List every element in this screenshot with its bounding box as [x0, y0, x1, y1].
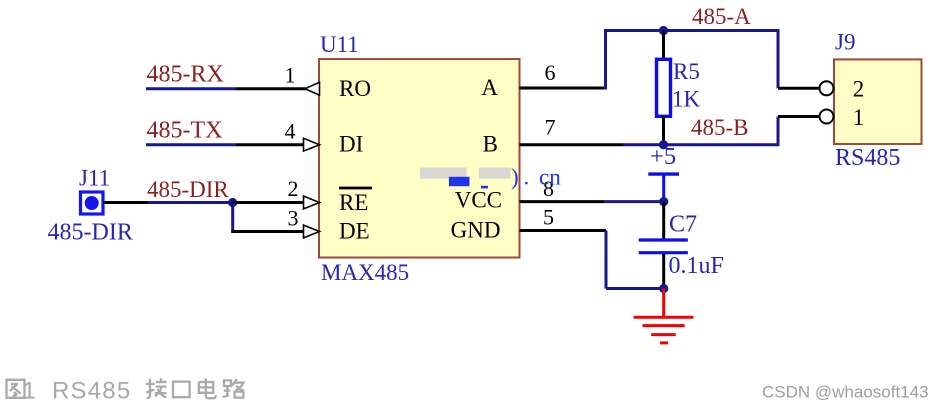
caption CJK glyph lu (road): [223, 379, 244, 398]
pin 3 stub: [231, 230, 304, 233]
svg-text:DE: DE: [339, 219, 370, 244]
power +5 bar: [648, 172, 679, 175]
wire into J9 pin 2: [778, 87, 820, 90]
pin 4 arrow: [304, 138, 320, 151]
svg-text:485-TX: 485-TX: [147, 118, 223, 144]
watermark gray block 2: [479, 168, 511, 179]
wire net 485-TX: [146, 143, 236, 146]
resistor R5 lead top: [662, 31, 665, 61]
pin 2 stub: [233, 201, 304, 204]
ground bar 3: [651, 333, 676, 336]
junction node at R5 bottom: [659, 140, 668, 149]
wire net 485-A top rail: [604, 29, 778, 32]
svg-text:1K: 1K: [672, 87, 701, 112]
svg-text:U11: U11: [320, 32, 359, 57]
pin 2 arrow: [304, 196, 320, 209]
connector J11 pad: [81, 192, 104, 214]
svg-text:3: 3: [288, 206, 299, 231]
wire junction down to pin 3 row: [231, 203, 234, 232]
wire net 485-RX: [146, 87, 236, 90]
svg-text:B: B: [483, 132, 498, 157]
capacitor C7 lead top: [662, 202, 665, 239]
wire GND down: [605, 231, 608, 289]
svg-text:VCC: VCC: [455, 188, 502, 213]
wire net 485-B right: [664, 143, 779, 146]
wire VCC to junction: [604, 200, 664, 203]
svg-text:J9: J9: [835, 30, 855, 55]
resistor R5 body: [657, 59, 671, 116]
svg-text:4: 4: [285, 119, 296, 144]
wire 485-A down to J9 pin 2: [777, 29, 780, 88]
ground bar 1: [634, 316, 694, 319]
wire A riser up: [604, 29, 607, 90]
pin 3 arrow: [304, 225, 320, 238]
svg-text:2: 2: [853, 77, 865, 102]
svg-text:DI: DI: [339, 132, 363, 157]
svg-text:RO: RO: [339, 76, 371, 101]
svg-text:0.1uF: 0.1uF: [669, 253, 724, 279]
ground bar 4: [660, 341, 668, 344]
capacitor C7 top plate: [639, 238, 688, 241]
junction node GND: [659, 284, 668, 293]
svg-text:C7: C7: [669, 212, 697, 238]
svg-text:485-A: 485-A: [692, 4, 751, 29]
junction node VCC: [659, 197, 668, 206]
watermark gray block 1: [420, 168, 467, 179]
wire GND bottom run: [606, 287, 664, 290]
watermark blue dash: [481, 186, 488, 189]
svg-text:5: 5: [543, 205, 554, 230]
svg-text:6: 6: [545, 60, 556, 85]
svg-text:7: 7: [545, 115, 556, 140]
power +5 stem: [662, 174, 665, 202]
svg-text:485-DIR: 485-DIR: [147, 177, 229, 202]
pin 8 stub: [520, 200, 605, 203]
J9 pin 1 circle: [820, 110, 834, 124]
svg-text:J11: J11: [79, 166, 110, 191]
pin 4 stub: [236, 143, 304, 146]
IC U11 MAX485 body: [319, 59, 520, 258]
svg-text:1: 1: [853, 105, 865, 130]
wire net 485-DIR: [148, 201, 233, 204]
wire net 485-B left: [623, 143, 664, 146]
wire into J9 pin 1: [778, 115, 820, 118]
svg-text:R5: R5: [673, 59, 700, 84]
svg-text:MAX485: MAX485: [321, 260, 409, 285]
svg-text:CSDN @whaosoft143: CSDN @whaosoft143: [762, 383, 929, 402]
caption CJK glyph dian (electric): [199, 378, 216, 398]
svg-text:2: 2: [288, 176, 299, 201]
svg-text:).cn: ).cn: [511, 164, 561, 189]
wire 485-B up to J9 pin 1: [777, 117, 780, 147]
svg-text:1RS485: 1RS485: [23, 378, 132, 405]
caption CJK glyph kou (port): [173, 382, 190, 398]
pin 1 stub: [236, 87, 306, 90]
watermark blue block: [449, 177, 470, 186]
svg-text:RE: RE: [339, 190, 368, 215]
pin 6 stub: [520, 87, 608, 90]
junction node DIR: [228, 198, 237, 207]
pin 1 arrow: [305, 82, 320, 95]
junction node at R5 top: [659, 26, 668, 35]
connector J9 body: [834, 59, 922, 144]
RE overline: [339, 187, 372, 190]
resistor R5 lead bottom: [662, 116, 665, 145]
capacitor C7 bottom plate: [639, 251, 688, 254]
ground stub: [662, 289, 665, 318]
svg-text:RS485: RS485: [835, 145, 900, 171]
ground bar 2: [642, 324, 684, 327]
svg-text:485-B: 485-B: [691, 115, 749, 140]
pin 5 stub: [520, 229, 607, 232]
svg-text:485-DIR: 485-DIR: [48, 220, 133, 246]
caption CJK glyph jie (connect): [146, 378, 167, 398]
capacitor C7 lead bottom: [662, 254, 665, 289]
J9 pin 2 circle: [820, 81, 834, 95]
caption CJK glyph tu (figure): [7, 380, 25, 398]
svg-text:A: A: [481, 75, 498, 100]
svg-text:+5: +5: [650, 143, 676, 170]
svg-text:1: 1: [285, 63, 296, 88]
pin 7 stub: [520, 143, 624, 146]
svg-text:485-RX: 485-RX: [147, 62, 224, 88]
wire J11 to junction (black part): [103, 201, 148, 204]
svg-text:GND: GND: [451, 218, 501, 243]
